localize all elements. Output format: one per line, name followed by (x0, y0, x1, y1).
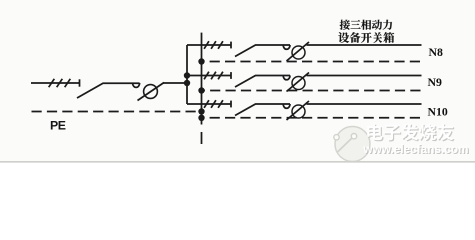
svg-text:N8: N8 (429, 45, 444, 59)
conductor ticks main feed (49, 79, 55, 87)
wire main incoming feed (31, 82, 80, 84)
node N9 branch junction (184, 72, 190, 78)
protector slash N8 (287, 42, 310, 61)
wire N10 neutral (dashed) (202, 117, 421, 119)
svg-text:N10: N10 (428, 105, 448, 119)
protector slash N10 (287, 101, 310, 120)
switch contact bar N9 (230, 72, 232, 79)
node N8 neutral junction (198, 58, 204, 64)
svg-text:N9: N9 (428, 75, 443, 89)
wire N8 to box (307, 44, 422, 46)
switch blade N8 (235, 45, 290, 57)
phase busbar (left vertical) (186, 45, 188, 104)
protector circle main (144, 85, 158, 99)
node PE junction (198, 108, 204, 114)
wire N8 neutral (dashed) (202, 61, 421, 63)
wire N9 neutral (dashed) (202, 90, 421, 92)
N/PE riser (right vertical) (201, 33, 203, 125)
label header line1 接三相动力 (340, 20, 350, 30)
switch contact bar N10 (230, 101, 232, 108)
wire PE (dashed) (32, 111, 202, 113)
wire main to bus (163, 82, 187, 84)
protector circle N9 (292, 77, 305, 90)
svg-text:PE: PE (50, 118, 66, 132)
protector circle N8 (292, 46, 305, 59)
switch blade N10 (235, 104, 290, 116)
switch contact bar main (79, 79, 81, 86)
label header line2 设备开关箱 (338, 32, 349, 43)
switch hook N8 (283, 45, 290, 49)
N/PE riser dashed tail (201, 132, 203, 144)
switch contact bar N8 (230, 42, 232, 49)
protector circle N10 (292, 105, 305, 118)
protector slash main (138, 83, 165, 101)
switch hook N9 (283, 76, 290, 80)
wire N8 phase line (187, 44, 231, 46)
wire N9 phase line (187, 75, 231, 77)
protector slash N9 (287, 73, 310, 92)
switch blade N9 (235, 76, 290, 88)
conductor ticks N9 (204, 72, 209, 80)
node N9 neutral junction (198, 87, 204, 93)
conductor ticks N8 (204, 41, 209, 49)
conductor ticks N10 (204, 100, 209, 108)
node main feed junction (184, 80, 190, 86)
wire N10 phase line (187, 103, 231, 105)
switch hook N10 (283, 104, 290, 108)
switch hook main (133, 83, 140, 87)
wire N10 to box (307, 103, 422, 105)
node N10 neutral junction (198, 115, 204, 121)
wire N9 to box (307, 75, 422, 77)
switch blade main (77, 83, 140, 98)
svg-text:www.elecfans.com: www.elecfans.com (362, 142, 468, 156)
